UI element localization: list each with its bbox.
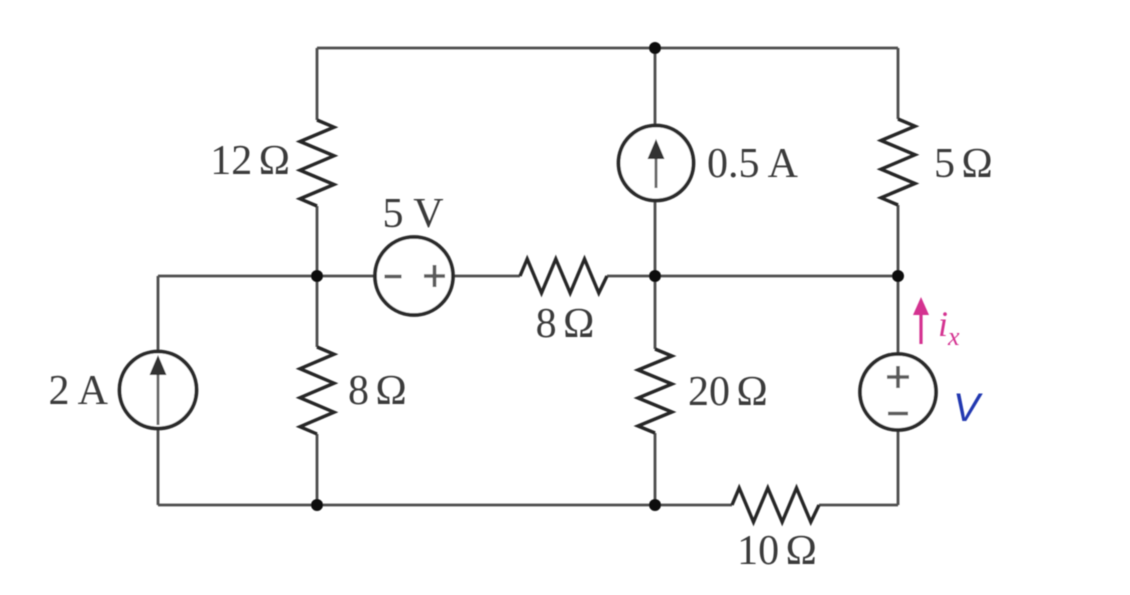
source V circle [860, 354, 936, 430]
wire left upper branch (top rail to 12 ohm) [316, 48, 319, 120]
svg-text:5 V: 5 V [382, 191, 443, 237]
svg-text:2 A: 2 A [48, 368, 108, 414]
wire bottom rail left segment [158, 504, 732, 507]
source 0.5A circle [619, 126, 694, 201]
wire middle rail to 20 ohm [654, 276, 657, 349]
source 5V minus sign [385, 275, 402, 279]
wire 12 ohm to middle node [316, 206, 319, 276]
source 2A arrow [150, 355, 167, 425]
resistor 10 ohm [732, 488, 819, 522]
wire 5 ohm to middle rail node [897, 205, 900, 276]
svg-text:8 Ω: 8 Ω [348, 368, 407, 414]
wire 5V source to 8 ohm resistor [453, 275, 520, 278]
wire top rail to 0.5A source [654, 48, 657, 126]
node dot middle-center [649, 270, 661, 282]
svg-text:20 Ω: 20 Ω [688, 369, 768, 415]
wire top rail [317, 47, 898, 50]
wire 0.5A source to middle rail [654, 200, 657, 276]
node dot middle-right [892, 270, 904, 282]
svg-text:10 Ω: 10 Ω [737, 528, 817, 574]
wire V source to bottom rail [897, 429, 900, 505]
resistor 8 ohm vertical [300, 347, 334, 434]
node dot bottom-center [649, 499, 661, 511]
resistor 12 ohm [300, 120, 334, 206]
svg-text:8 Ω: 8 Ω [536, 301, 595, 347]
resistor 5 ohm [881, 119, 915, 205]
source V minus sign [888, 412, 908, 416]
resistor 20 ohm [638, 349, 672, 433]
wire 8 ohm resistor to middle rail right [607, 275, 898, 278]
svg-text:ix: ix [938, 304, 960, 351]
svg-text:5 Ω: 5 Ω [934, 141, 993, 187]
svg-text:0.5 A: 0.5 A [707, 141, 799, 187]
wire 2A source to bottom rail [157, 428, 160, 505]
source V plus sign [887, 366, 909, 388]
wire bottom rail right segment [819, 504, 898, 507]
source 2A circle [120, 352, 197, 429]
wire top rail to 5 ohm [897, 48, 900, 119]
node dot top-center [649, 42, 661, 54]
wire left branch down to 2A source [157, 276, 160, 352]
node dot middle-left [311, 270, 323, 282]
svg-text:V: V [953, 386, 983, 430]
source 5V circle [375, 237, 453, 315]
wire 8 ohm vertical to bottom rail [316, 434, 319, 505]
svg-text:12 Ω: 12 Ω [210, 138, 290, 184]
wire 20 ohm to bottom rail [654, 433, 657, 505]
wire middle node down to 8 ohm vertical [316, 276, 319, 347]
resistor 8 ohm horizontal [520, 259, 607, 293]
wire middle node to V source [897, 276, 900, 355]
source 5V plus sign [424, 265, 445, 287]
current arrow ix (magenta) [913, 297, 929, 344]
wire middle rail left segment [158, 275, 375, 278]
node dot bottom-left [311, 499, 323, 511]
source 0.5A arrow [648, 139, 665, 188]
